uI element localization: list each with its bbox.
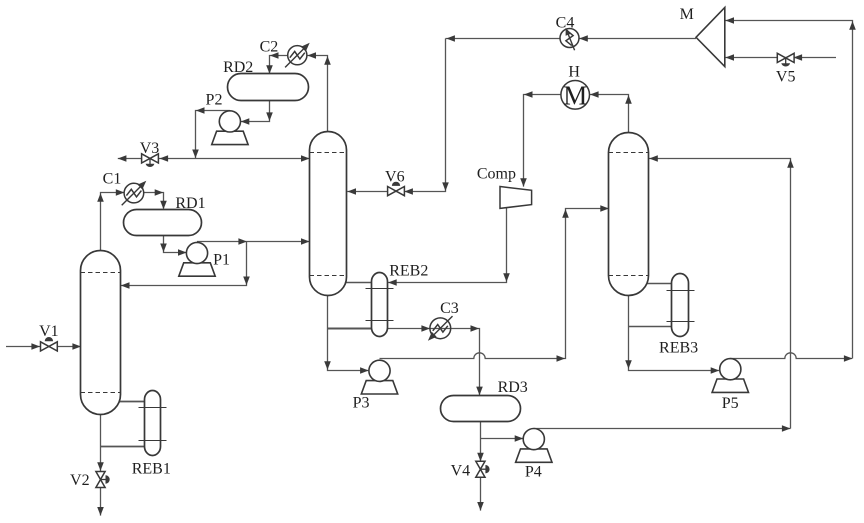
- label V6: [385, 169, 405, 186]
- label P1: [213, 252, 230, 269]
- wire: column T1 bottoms through valve V2: [97, 414, 104, 516]
- label M: [680, 6, 694, 23]
- svg-text:REB1: REB1: [132, 461, 171, 478]
- valve V1: [41, 337, 58, 351]
- reflux drum RD3: [441, 396, 521, 422]
- reflux drum RD2: [228, 74, 309, 101]
- svg-text:V6: V6: [385, 169, 405, 186]
- label V3: [140, 140, 160, 157]
- wire: feed through valve V1 into column T1: [6, 343, 81, 350]
- svg-text:H: H: [568, 64, 580, 81]
- svg-text:P2: P2: [206, 92, 223, 109]
- label RD1: [175, 195, 205, 212]
- label V5: [776, 69, 796, 86]
- svg-text:C1: C1: [103, 171, 122, 188]
- valve V3: [142, 154, 159, 167]
- svg-text:P1: P1: [213, 252, 230, 269]
- wire: column T2 bottoms to pump P3: [324, 296, 369, 374]
- wire: drum RD2 outlet to pump P2: [241, 100, 273, 125]
- svg-text:V2: V2: [70, 472, 90, 489]
- svg-text:M: M: [680, 6, 694, 23]
- wire: pump P5 discharge to recycle riser: [730, 353, 852, 362]
- wire: reflux branch back to column T1: [121, 242, 250, 289]
- label P3: [353, 395, 370, 412]
- svg-text:RD2: RD2: [223, 59, 253, 76]
- wire: pump P1 discharge to column T2 feed: [197, 238, 310, 245]
- wire: pump P4 discharge line: [534, 425, 791, 432]
- label C4: [556, 15, 575, 32]
- svg-text:C2: C2: [260, 38, 279, 55]
- label P4: [525, 464, 542, 481]
- distillation column T2: [310, 132, 347, 296]
- label REB3: [659, 340, 698, 357]
- wire: compressor discharge to reboiler REB2: [388, 208, 510, 286]
- distillation column T3: [609, 133, 649, 296]
- svg-text:REB3: REB3: [659, 340, 698, 357]
- wire: condenser C1 outlet to reflux drum RD1: [143, 189, 166, 209]
- wire: column T1 overhead vapor to condenser C1: [97, 189, 124, 252]
- label P2: [206, 92, 223, 109]
- svg-text:Comp: Comp: [477, 166, 516, 183]
- wire: bottoms branch to reboiler REB3: [629, 326, 672, 328]
- label C3: [440, 300, 459, 317]
- wire: column T2 overhead vapor to condenser C2: [307, 52, 330, 132]
- label C2: [260, 38, 279, 55]
- svg-text:V1: V1: [39, 323, 59, 340]
- valve V4: [476, 461, 490, 477]
- pump P2: [212, 111, 248, 145]
- reboiler REB1: [139, 391, 167, 456]
- wire: reboiler REB2 outlet through condenser C3 to drum RD3: [388, 325, 483, 395]
- wire: pump P4 riser to column T3 top: [649, 155, 794, 428]
- label H: [568, 64, 580, 81]
- svg-text:P3: P3: [353, 395, 370, 412]
- svg-text:C4: C4: [556, 15, 575, 32]
- valve V6: [388, 182, 405, 196]
- wire: bottoms branch to reboiler REB2: [328, 328, 372, 330]
- mixer M: [696, 8, 725, 67]
- wire: column T3 to reboiler REB3 vapor line: [647, 283, 672, 285]
- wire: recycle riser to mixer M top inlet: [725, 17, 856, 358]
- label P5: [722, 395, 739, 412]
- wire: pump P2 discharge down to reflux header: [192, 107, 230, 158]
- wire: bottoms branch to reboiler REB1: [101, 446, 145, 448]
- svg-text:RD1: RD1: [175, 195, 205, 212]
- label C1: [103, 171, 122, 188]
- label RD3: [498, 379, 528, 396]
- svg-text:P5: P5: [722, 395, 739, 412]
- distillation column T1: [81, 251, 121, 415]
- condenser C2: [285, 40, 312, 67]
- wire: condenser C2 outlet to reflux drum RD2: [266, 52, 288, 74]
- reboiler REB3: [667, 274, 695, 337]
- wire: condenser C4 outlet westwards: [446, 35, 561, 42]
- condenser C1: [122, 178, 149, 205]
- wire: pump P3 discharge riser to column T3 feed: [380, 205, 609, 362]
- wire: drum RD3 branch to pump P4: [481, 435, 524, 442]
- wire: drum RD3 bottoms through valve V4: [477, 422, 484, 511]
- wire: heater H outlet down to compressor: [520, 91, 561, 187]
- condenser C3: [425, 316, 452, 343]
- compressor Comp: [500, 187, 532, 209]
- wire: column T3 bottoms to pump P5: [625, 296, 719, 374]
- heater H: [561, 80, 590, 110]
- reboiler REB2: [366, 273, 394, 337]
- label Comp: [477, 166, 516, 183]
- svg-text:RD3: RD3: [498, 379, 528, 396]
- label REB1: [132, 461, 171, 478]
- valve V2: [96, 472, 110, 488]
- label REB2: [389, 263, 428, 280]
- pump P5: [712, 359, 748, 393]
- svg-text:V5: V5: [776, 69, 796, 86]
- svg-text:M: M: [563, 80, 587, 110]
- label V2: [70, 472, 90, 489]
- wire: column T3 overhead to heater H: [590, 91, 632, 133]
- pump P3: [361, 360, 397, 394]
- wire: column T1 to reboiler REB1 vapor line: [119, 401, 145, 403]
- svg-text:REB2: REB2: [389, 263, 428, 280]
- wire: reflux header through valve V3 into column T2: [118, 155, 310, 162]
- reflux drum RD1: [124, 210, 202, 236]
- wire: reboiler REB2 vapor return to column T2: [345, 282, 371, 284]
- label V1: [39, 323, 59, 340]
- wire: mixer M outlet to condenser C4: [579, 35, 696, 42]
- condenser C4: [560, 28, 579, 51]
- label RD2: [223, 59, 253, 76]
- svg-text:C3: C3: [440, 300, 459, 317]
- svg-text:V3: V3: [140, 140, 160, 157]
- valve V5: [777, 53, 794, 66]
- label V4: [451, 463, 471, 480]
- wire: fresh feed through valve V5 to mixer M: [725, 54, 836, 61]
- svg-text:V4: V4: [451, 463, 471, 480]
- pump P1: [179, 242, 215, 276]
- wire: recycle down through valve V6 into column T2: [347, 39, 449, 195]
- svg-text:P4: P4: [525, 464, 542, 481]
- wire: drum RD1 outlet to pump P1: [160, 236, 186, 256]
- pump P4: [516, 429, 552, 463]
